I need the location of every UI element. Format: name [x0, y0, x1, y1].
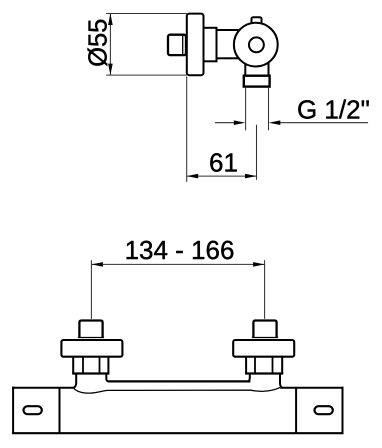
left union top nut	[78, 321, 104, 338]
dimension Ø55 dimension line with arrows	[108, 14, 113, 76]
valve body section 2	[217, 30, 239, 58]
bar top edge between unions	[108, 380, 251, 382]
outlet centre line	[256, 125, 258, 180]
right union hex nut	[245, 357, 283, 374]
label Ø55	[84, 19, 112, 67]
svg-text:61: 61	[209, 148, 238, 178]
svg-text:G 1/2": G 1/2"	[297, 95, 370, 125]
right union top nut	[252, 321, 278, 338]
handle hub inner circle	[249, 37, 264, 52]
dimension Ø55 extension line top	[106, 13, 187, 15]
bar left end edge	[59, 388, 61, 434]
right ear slot hole	[315, 406, 333, 414]
dimension 134-166 extension line left	[90, 260, 92, 319]
dimension 134-166 extension line right	[264, 260, 266, 319]
label 134 - 166	[125, 235, 235, 265]
escutcheon flange (Ø55 plate)	[187, 14, 204, 76]
dimension 61 extension line left (wall face)	[186, 77, 188, 182]
dimension 61 dimension line with arrows	[187, 174, 257, 179]
left wall bracket ear	[12, 387, 74, 434]
label G 1/2"	[297, 95, 370, 125]
outlet lower band (G 1/2 thread)	[244, 76, 270, 87]
right union base edges	[248, 374, 283, 388]
outlet upper tube	[245, 58, 268, 76]
left union flange	[61, 340, 122, 357]
svg-text:Ø55: Ø55	[84, 19, 112, 67]
right union flange	[233, 340, 294, 357]
left union hex nut	[72, 357, 109, 374]
valve body section 1	[204, 28, 217, 62]
right wall bracket ear	[280, 387, 343, 434]
handle knob circle	[234, 23, 278, 67]
G 1/2 dimension arrow right	[269, 120, 368, 125]
G 1/2 dimension arrow left	[215, 120, 245, 125]
label 61	[209, 148, 238, 178]
G 1/2 extension line right	[268, 88, 270, 130]
wall nipple connector	[168, 35, 186, 55]
left union base edges	[74, 374, 109, 388]
svg-text:134 - 166: 134 - 166	[125, 235, 235, 265]
dimension 134-166 dimension line with arrows	[91, 262, 264, 267]
bar silhouette thin line with eccentric domes	[74, 387, 280, 393]
left ear slot hole	[24, 406, 42, 414]
G 1/2 extension line left	[245, 88, 247, 130]
mixer bar bottom edge	[12, 432, 343, 434]
bar right end edge	[295, 388, 297, 434]
handle top button	[252, 17, 262, 29]
dimension Ø55 extension line bottom	[106, 74, 187, 76]
